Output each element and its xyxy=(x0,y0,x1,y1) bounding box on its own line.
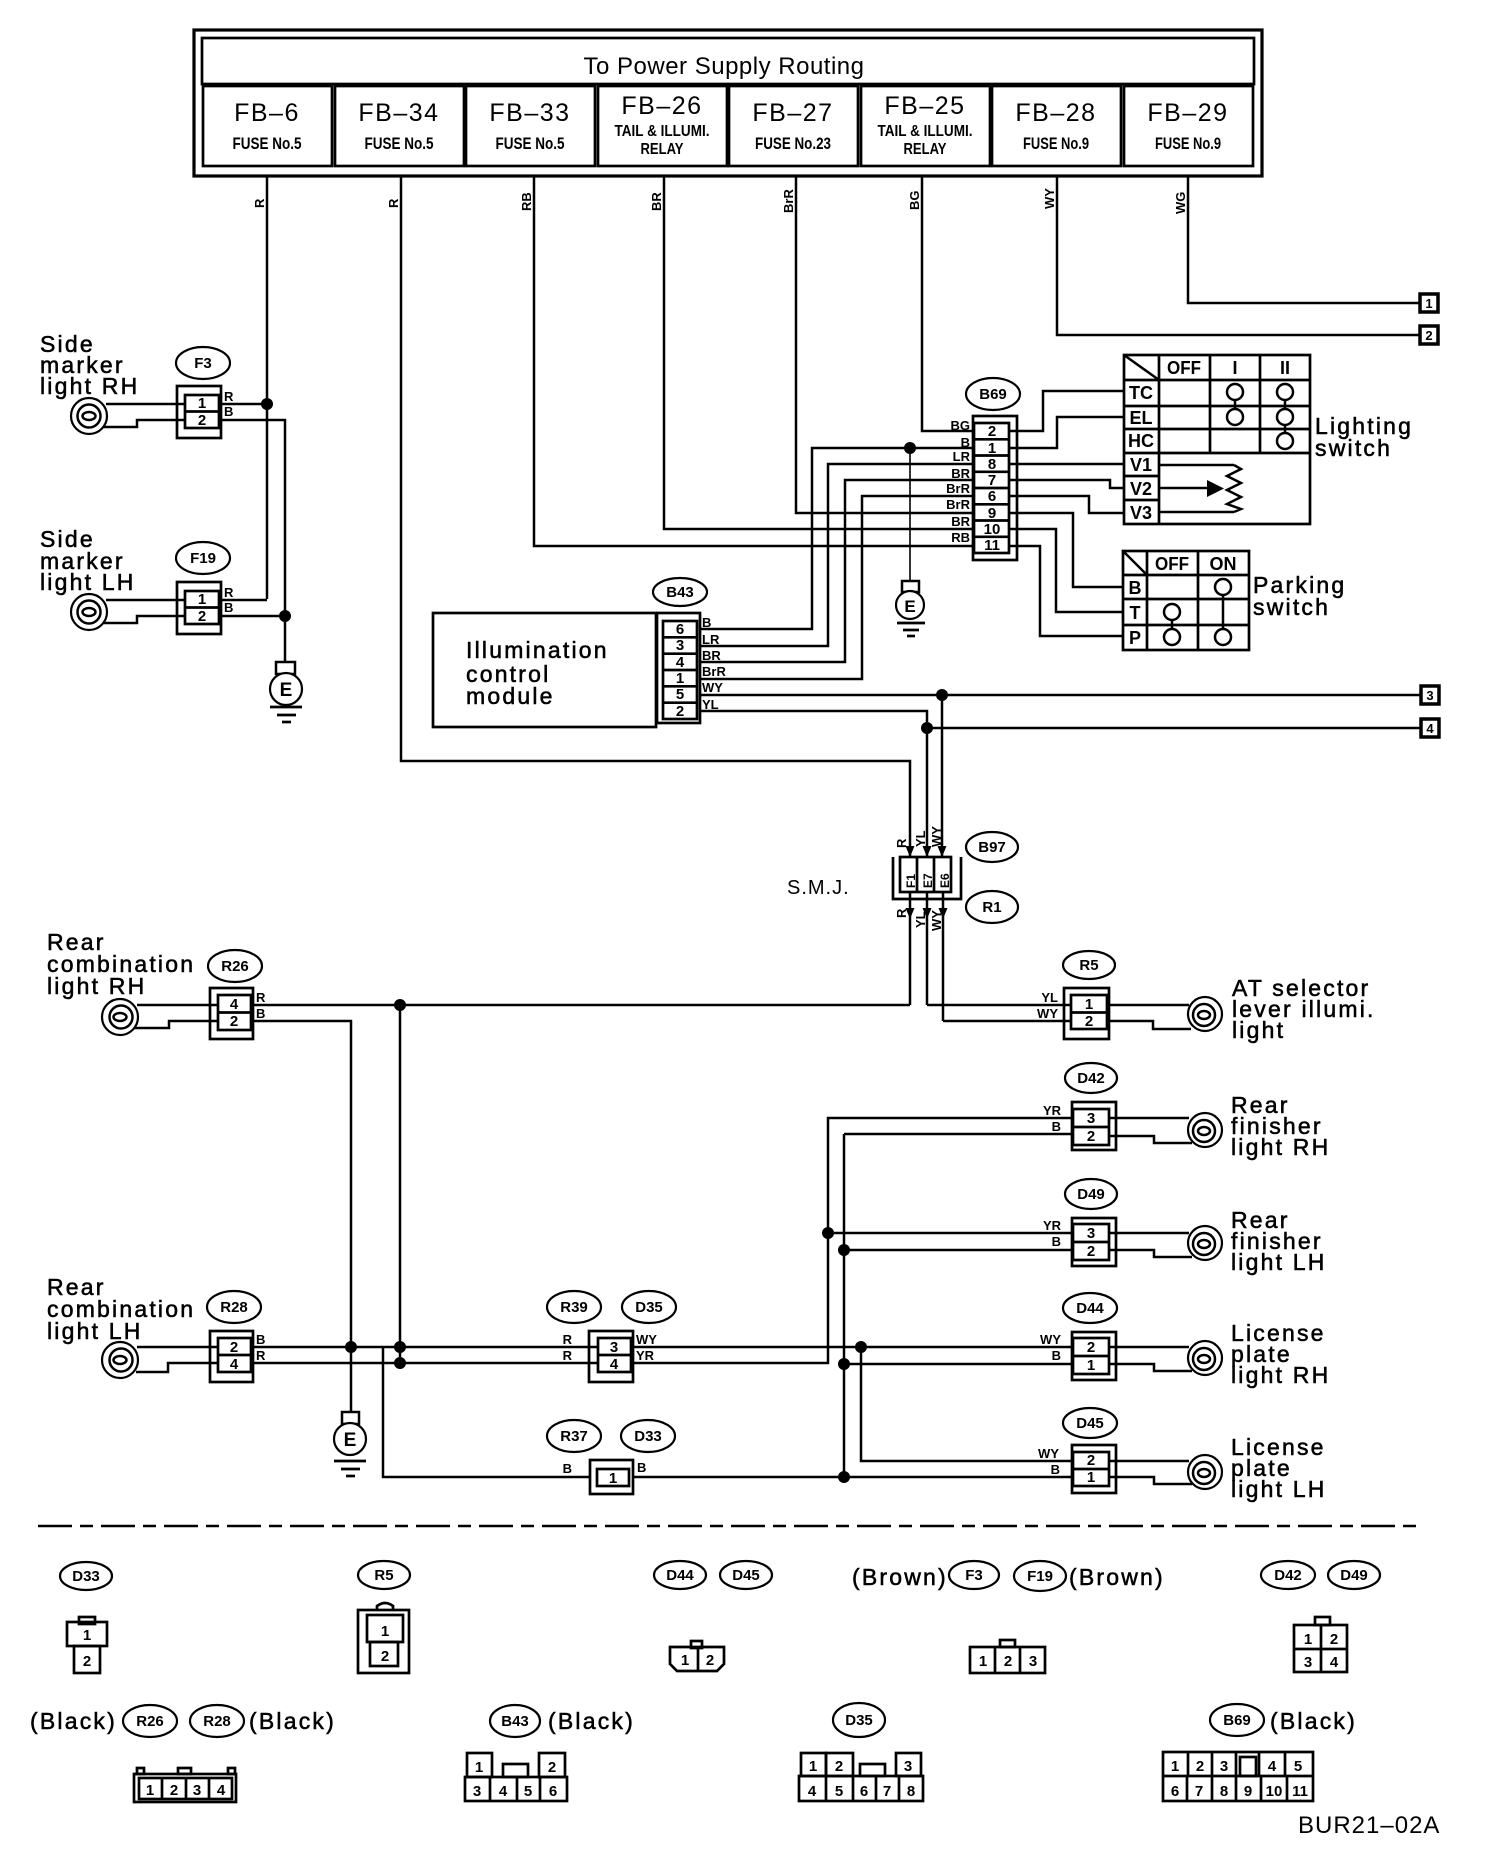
svg-text:R1: R1 xyxy=(982,899,1001,916)
wire bulb to F3 pin2 xyxy=(103,420,186,427)
terminal 4 xyxy=(1421,719,1439,737)
svg-text:RB: RB xyxy=(519,192,534,211)
svg-text:FUSE No.23: FUSE No.23 xyxy=(755,134,831,153)
svg-text:B69: B69 xyxy=(1223,1712,1251,1729)
svg-text:S.M.J.: S.M.J. xyxy=(787,877,850,899)
terminal 1 xyxy=(1420,294,1438,312)
svg-text:R28: R28 xyxy=(220,1299,248,1316)
relay cell FB-25 xyxy=(861,86,990,166)
svg-text:FB–29: FB–29 xyxy=(1147,99,1228,127)
svg-text:4: 4 xyxy=(610,1356,619,1373)
svg-text:3: 3 xyxy=(1029,1653,1037,1670)
svg-text:II: II xyxy=(1280,358,1290,378)
svg-text:FUSE No.5: FUSE No.5 xyxy=(233,134,302,153)
svg-text:To Power Supply Routing: To Power Supply Routing xyxy=(584,53,865,80)
svg-text:R: R xyxy=(256,990,266,1005)
svg-text:FUSE No.9: FUSE No.9 xyxy=(1155,134,1221,153)
svg-text:B: B xyxy=(1052,1119,1061,1134)
connector label R28 xyxy=(207,1291,261,1323)
svg-text:light LH: light LH xyxy=(40,569,136,595)
junction WY branch to D45 xyxy=(855,1341,867,1353)
svg-text:3: 3 xyxy=(904,1758,912,1775)
svg-text:2: 2 xyxy=(1087,1452,1095,1469)
svg-text:1: 1 xyxy=(681,1652,689,1669)
arrow R into SMJ xyxy=(906,846,915,857)
svg-text:FUSE No.5: FUSE No.5 xyxy=(496,134,565,153)
svg-text:RELAY: RELAY xyxy=(641,141,684,158)
legend connector label D49 xyxy=(1328,1561,1380,1589)
relay cell FB-26 xyxy=(598,86,727,166)
SMJ pin box xyxy=(900,857,952,892)
legend connector label D35 xyxy=(833,1703,885,1737)
bulb AT selector xyxy=(1188,997,1222,1031)
svg-text:BrR: BrR xyxy=(781,189,796,213)
wire WY branch down to D45 xyxy=(861,1347,1073,1461)
svg-text:R: R xyxy=(224,585,234,600)
svg-text:(Black): (Black) xyxy=(548,1708,635,1734)
svg-text:R: R xyxy=(224,389,234,404)
svg-text:E7: E7 xyxy=(921,873,935,888)
svg-text:8: 8 xyxy=(988,456,996,473)
svg-text:OFF: OFF xyxy=(1167,358,1201,378)
fuse cell FB-28 xyxy=(992,86,1121,166)
V1 internal wire xyxy=(1159,464,1234,467)
svg-text:FB–25: FB–25 xyxy=(884,92,965,120)
junction B drop to ground xyxy=(345,1341,357,1353)
svg-text:1: 1 xyxy=(979,1653,987,1670)
power supply routing box outer frame xyxy=(194,30,1262,176)
SMJ connector bracket xyxy=(893,857,961,899)
svg-text:Illumination: Illumination xyxy=(466,637,609,663)
svg-text:R26: R26 xyxy=(136,1713,164,1730)
wire B69 pin2 to lighting switch TC xyxy=(1009,391,1124,431)
wire bulb to F3 pin1 xyxy=(106,403,186,406)
wire bulb to R26 pin2 xyxy=(134,1021,217,1028)
svg-text:BR: BR xyxy=(951,514,970,529)
junction R drop on B row xyxy=(394,1341,406,1353)
bulb side marker LH xyxy=(71,594,107,630)
svg-text:FUSE No.9: FUSE No.9 xyxy=(1023,134,1089,153)
connector B69 xyxy=(973,416,1017,560)
junction YL to terminal 4 xyxy=(921,722,933,734)
svg-text:F19: F19 xyxy=(190,550,216,567)
bulb rear finisher LH xyxy=(1188,1226,1222,1260)
arrow WY below SMJ xyxy=(939,908,948,919)
wire B branch down to R37 row xyxy=(383,1347,590,1477)
svg-text:6: 6 xyxy=(549,1783,557,1800)
svg-text:light LH: light LH xyxy=(47,1318,143,1344)
wire WY from SMJ to R5 pin2 xyxy=(943,1020,1071,1023)
svg-text:1: 1 xyxy=(1425,296,1432,311)
svg-text:D45: D45 xyxy=(732,1567,760,1584)
wire B69 pin9 to parking switch B xyxy=(1009,513,1123,587)
connector label D35 xyxy=(622,1291,676,1323)
svg-text:YL: YL xyxy=(1041,990,1058,1005)
wire YL below SMJ xyxy=(926,892,929,1005)
svg-text:9: 9 xyxy=(1244,1783,1252,1800)
svg-text:B: B xyxy=(1052,1348,1061,1363)
svg-text:V3: V3 xyxy=(1130,503,1152,523)
svg-text:FB–6: FB–6 xyxy=(234,99,300,127)
fuse cell FB-6 xyxy=(203,86,332,166)
svg-text:4: 4 xyxy=(230,1356,239,1373)
wire bulb to R28 pin4 xyxy=(136,1363,217,1372)
legend connector label R28 xyxy=(190,1705,244,1737)
svg-text:1: 1 xyxy=(676,670,684,687)
legend connector label D42 xyxy=(1261,1561,1315,1589)
wire D42 pin2 to bulb xyxy=(1109,1136,1192,1143)
svg-text:3: 3 xyxy=(1304,1654,1312,1671)
svg-text:5: 5 xyxy=(1294,1758,1302,1775)
connector B43 pin block xyxy=(657,613,700,723)
svg-text:2: 2 xyxy=(706,1652,714,1669)
connector label R37 xyxy=(547,1420,601,1452)
junction B at D44 xyxy=(838,1358,850,1370)
svg-text:2: 2 xyxy=(676,703,684,720)
arrow YL below SMJ xyxy=(923,908,932,919)
svg-text:B: B xyxy=(256,1006,265,1021)
svg-text:B: B xyxy=(224,600,233,615)
svg-text:3: 3 xyxy=(676,637,684,654)
junction R drop xyxy=(394,999,406,1011)
wire D35 YR row to bus xyxy=(633,1118,1073,1363)
svg-text:R: R xyxy=(252,198,267,208)
legend connector R26/R28 face xyxy=(134,1768,236,1802)
variable resistor zigzag xyxy=(1227,465,1241,512)
wire R5 pin2 to bulb xyxy=(1107,1021,1191,1029)
connector label F3 xyxy=(176,347,230,379)
wire B69 pin6 to lighting switch V3 xyxy=(1009,496,1124,513)
wire bulb to F19 pin1 xyxy=(106,599,186,602)
svg-text:2: 2 xyxy=(1087,1243,1095,1260)
svg-text:R: R xyxy=(563,1332,573,1347)
svg-text:T: T xyxy=(1130,603,1141,623)
connector R26 xyxy=(210,988,253,1039)
wire B69 pin10 to parking switch T xyxy=(1009,529,1123,612)
svg-text:I: I xyxy=(1232,358,1237,378)
wire D49 pin3 to bulb xyxy=(1109,1232,1189,1235)
wire BG from FB-25 to B69 pin2 xyxy=(922,176,975,431)
svg-text:D42: D42 xyxy=(1274,1567,1302,1584)
junction F19 B xyxy=(279,610,291,622)
wire B bus to D42 xyxy=(844,1133,1073,1136)
svg-text:R28: R28 xyxy=(203,1713,231,1730)
svg-text:F19: F19 xyxy=(1027,1568,1053,1585)
junction B at R37 row xyxy=(838,1471,850,1483)
svg-text:F1: F1 xyxy=(904,874,918,888)
wire B43 pin3 LR to B69 pin8 xyxy=(700,464,975,646)
svg-text:YL: YL xyxy=(913,830,928,847)
wire F3 B right then down xyxy=(221,420,285,614)
wire BrR from FB-27 to B69 pin9 xyxy=(796,176,975,513)
wire B43 pin6 B to B69 pin1 xyxy=(700,448,975,629)
arrow R below SMJ xyxy=(906,908,915,919)
svg-text:R: R xyxy=(386,198,401,208)
legend connector label B69 xyxy=(1210,1704,1264,1736)
wire WG from FB-29 to terminal 1 xyxy=(1188,176,1420,303)
svg-text:V1: V1 xyxy=(1130,455,1152,475)
legend connector label D44 xyxy=(654,1561,706,1589)
svg-text:7: 7 xyxy=(883,1783,891,1800)
connector label R1 xyxy=(966,891,1018,923)
svg-text:YR: YR xyxy=(1043,1103,1062,1118)
svg-text:7: 7 xyxy=(988,472,996,489)
fuse cell FB-29 xyxy=(1124,86,1253,166)
wire R26 B right then down xyxy=(253,1021,351,1347)
svg-text:D49: D49 xyxy=(1340,1567,1368,1584)
wire B junction down to ground xyxy=(909,448,911,581)
wire B branch to D49 xyxy=(844,1249,1073,1252)
legend connector B43 face xyxy=(465,1753,567,1801)
connector R5 xyxy=(1064,988,1109,1039)
connector label R39 xyxy=(547,1291,601,1323)
svg-text:1: 1 xyxy=(1087,1357,1095,1374)
svg-text:2: 2 xyxy=(381,1648,389,1665)
svg-text:6: 6 xyxy=(988,488,996,505)
svg-text:BUR21–02A: BUR21–02A xyxy=(1298,1812,1440,1839)
svg-text:1: 1 xyxy=(1087,1469,1095,1486)
svg-text:(Brown): (Brown) xyxy=(1069,1564,1165,1590)
svg-text:5: 5 xyxy=(676,686,684,703)
svg-text:B: B xyxy=(563,1461,572,1476)
svg-text:11: 11 xyxy=(984,537,1000,554)
svg-text:4: 4 xyxy=(217,1782,226,1799)
connector label R5 xyxy=(1063,951,1115,979)
legend connector label D45 xyxy=(720,1561,772,1589)
svg-text:8: 8 xyxy=(1220,1783,1228,1800)
svg-text:OFF: OFF xyxy=(1155,554,1189,574)
svg-text:4: 4 xyxy=(676,654,685,671)
svg-text:2: 2 xyxy=(1196,1758,1204,1775)
svg-text:light RH: light RH xyxy=(47,973,146,999)
svg-text:1: 1 xyxy=(198,395,206,412)
svg-text:EL: EL xyxy=(1129,408,1152,428)
svg-text:8: 8 xyxy=(907,1783,915,1800)
connector R37/D33 xyxy=(590,1460,633,1494)
wire D45 pin2 to bulb xyxy=(1109,1460,1189,1463)
svg-text:D33: D33 xyxy=(72,1568,100,1585)
svg-text:P: P xyxy=(1129,628,1141,648)
svg-text:2: 2 xyxy=(1085,1013,1093,1030)
wire B69 pin7 to lighting switch V2 xyxy=(1009,480,1124,488)
wire B bus vertical xyxy=(843,1134,846,1477)
svg-text:10: 10 xyxy=(1266,1783,1283,1800)
legend connector label D33 xyxy=(60,1562,112,1590)
svg-text:6: 6 xyxy=(676,621,684,638)
junction B to ground xyxy=(904,442,916,454)
legend connector B69 face xyxy=(1163,1752,1313,1801)
svg-text:switch: switch xyxy=(1253,594,1330,620)
connector label F19 xyxy=(176,542,230,574)
svg-text:2: 2 xyxy=(548,1759,556,1776)
power supply routing title cell xyxy=(202,38,1254,84)
parking switch table xyxy=(1123,551,1249,650)
svg-text:2: 2 xyxy=(230,1339,238,1356)
svg-text:5: 5 xyxy=(524,1783,532,1800)
svg-text:B: B xyxy=(961,435,970,450)
connector F3 xyxy=(177,386,221,438)
dashed separator line xyxy=(38,1525,1420,1528)
svg-text:E6: E6 xyxy=(938,873,952,888)
svg-text:BrR: BrR xyxy=(946,497,970,512)
wire bulb to F19 pin2 xyxy=(103,616,186,623)
wire YL from SMJ to R5 pin1 xyxy=(927,1004,1071,1007)
svg-text:TC: TC xyxy=(1129,383,1153,403)
svg-text:R37: R37 xyxy=(560,1428,588,1445)
wire R37 B row to D45 xyxy=(590,1476,1073,1479)
wire WY from FB-28 to terminal 2 xyxy=(1057,176,1420,335)
svg-text:WY: WY xyxy=(636,1332,657,1347)
illumination control module box xyxy=(433,613,656,727)
svg-text:9: 9 xyxy=(988,505,996,522)
svg-text:2: 2 xyxy=(835,1758,843,1775)
bulb side marker RH xyxy=(71,398,107,434)
wire RB from FB-33 to B69 pin11 xyxy=(534,176,975,546)
legend connector label F3 xyxy=(949,1561,999,1589)
wire WY below SMJ xyxy=(942,892,945,1021)
svg-text:2: 2 xyxy=(1087,1128,1095,1145)
wire down to ground E xyxy=(284,616,287,662)
svg-text:V2: V2 xyxy=(1130,479,1152,499)
svg-text:2: 2 xyxy=(1087,1339,1095,1356)
legend connector label R26 xyxy=(123,1705,177,1737)
svg-text:1: 1 xyxy=(381,1623,389,1640)
wire B branch to D44 xyxy=(844,1363,1073,1366)
svg-text:TAIL & ILLUMI.: TAIL & ILLUMI. xyxy=(615,123,710,140)
svg-text:FB–28: FB–28 xyxy=(1015,99,1096,127)
svg-text:FB–26: FB–26 xyxy=(621,92,702,120)
svg-text:1: 1 xyxy=(1085,996,1093,1013)
wire B43 pin5 WY to terminal 3 xyxy=(700,694,1421,697)
wire R below SMJ xyxy=(909,892,912,1005)
svg-text:light: light xyxy=(1232,1017,1285,1043)
bulb license plate LH xyxy=(1188,1455,1222,1489)
svg-text:switch: switch xyxy=(1315,435,1392,461)
svg-text:FB–34: FB–34 xyxy=(358,99,439,127)
ground E rear combination xyxy=(334,1412,366,1476)
svg-text:B: B xyxy=(637,1460,646,1475)
wire B43 pin4 BR to B69 pin7 xyxy=(700,480,975,662)
terminal 2 xyxy=(1420,326,1438,344)
svg-text:FB–33: FB–33 xyxy=(489,99,570,127)
svg-text:(Black): (Black) xyxy=(30,1708,117,1734)
svg-text:2: 2 xyxy=(198,608,206,625)
svg-text:3: 3 xyxy=(1087,1110,1095,1127)
svg-text:F3: F3 xyxy=(965,1567,983,1584)
svg-text:6: 6 xyxy=(1171,1783,1179,1800)
svg-text:HC: HC xyxy=(1128,431,1154,451)
svg-text:2: 2 xyxy=(1330,1631,1338,1648)
svg-text:BrR: BrR xyxy=(702,664,726,679)
connector label R26 xyxy=(208,950,262,982)
svg-text:4: 4 xyxy=(1330,1654,1339,1671)
wire R28 B row to R39 xyxy=(253,1346,598,1349)
legend connector D33 face xyxy=(67,1617,107,1673)
svg-text:4: 4 xyxy=(499,1783,508,1800)
svg-text:B: B xyxy=(256,1332,265,1347)
wire D44 pin1 to bulb xyxy=(1109,1364,1192,1371)
wire BR from FB-26 to B69 pin10 xyxy=(664,176,975,529)
legend connector D35 face xyxy=(799,1753,923,1801)
switch contact circles column I xyxy=(1227,384,1243,400)
wire B43 pin2 YL right then down xyxy=(700,711,927,857)
svg-text:4: 4 xyxy=(808,1783,817,1800)
svg-text:3: 3 xyxy=(610,1339,618,1356)
connector label B43 xyxy=(653,578,707,606)
wire R drop down to R28 row xyxy=(399,1005,402,1363)
svg-text:2: 2 xyxy=(1004,1653,1012,1670)
svg-text:1: 1 xyxy=(609,1470,617,1487)
legend connector D42/D49 face xyxy=(1294,1617,1347,1672)
legend connector label F19 xyxy=(1014,1561,1066,1591)
wire F19 B to junction xyxy=(221,615,285,618)
svg-text:WY: WY xyxy=(1040,1332,1061,1347)
arrow YL into SMJ xyxy=(923,846,932,857)
wire WY down to SMJ xyxy=(941,695,944,857)
lighting switch table xyxy=(1124,355,1310,524)
svg-text:D42: D42 xyxy=(1077,1070,1105,1087)
bulb rear finisher RH xyxy=(1188,1113,1222,1147)
legend connector label R5 xyxy=(358,1561,410,1589)
V2 internal wire with arrow xyxy=(1159,487,1209,490)
svg-text:BG: BG xyxy=(907,191,922,211)
wire R5 pin1 to bulb xyxy=(1107,1004,1189,1007)
svg-text:4: 4 xyxy=(230,996,239,1013)
svg-text:light RH: light RH xyxy=(1231,1134,1330,1160)
svg-text:2: 2 xyxy=(83,1653,91,1670)
wire B69 pin11 to parking switch P xyxy=(1009,546,1123,636)
svg-text:D35: D35 xyxy=(845,1712,873,1729)
legend connector D44/D45 face xyxy=(670,1641,724,1671)
connector label B97 xyxy=(966,832,1018,862)
svg-text:D44: D44 xyxy=(666,1567,694,1584)
switch contact circles column II xyxy=(1277,384,1293,400)
junction YR at D49 xyxy=(822,1227,834,1239)
ground E at B69 xyxy=(896,581,925,636)
connector D49 xyxy=(1072,1218,1116,1266)
svg-text:E: E xyxy=(344,1430,357,1451)
junction F3 R xyxy=(261,398,273,410)
svg-text:D35: D35 xyxy=(635,1299,663,1316)
svg-text:R: R xyxy=(894,908,909,918)
wire bulb to R28 pin2 xyxy=(137,1346,217,1349)
wire B43 pin1 BrR to B69 pin6 xyxy=(700,496,975,679)
svg-text:(Black): (Black) xyxy=(1270,1708,1357,1734)
svg-text:11: 11 xyxy=(1292,1783,1308,1800)
svg-text:light RH: light RH xyxy=(1231,1362,1330,1388)
svg-text:FB–27: FB–27 xyxy=(752,99,833,127)
svg-text:BrR: BrR xyxy=(946,481,970,496)
svg-text:YR: YR xyxy=(1043,1218,1062,1233)
svg-text:(Black): (Black) xyxy=(249,1708,336,1734)
legend connector F3/F19 face xyxy=(970,1640,1045,1673)
svg-text:4: 4 xyxy=(1426,721,1434,736)
svg-text:B: B xyxy=(224,404,233,419)
svg-text:WY: WY xyxy=(1037,1006,1058,1021)
connector label B69 xyxy=(966,378,1020,410)
svg-text:2: 2 xyxy=(988,423,996,440)
svg-text:2: 2 xyxy=(170,1782,178,1799)
svg-text:R26: R26 xyxy=(221,958,249,975)
svg-text:YR: YR xyxy=(636,1348,655,1363)
V3 internal wire xyxy=(1159,511,1234,514)
svg-text:B97: B97 xyxy=(978,839,1006,856)
wire F3 R to junction xyxy=(221,403,267,406)
svg-text:1: 1 xyxy=(1304,1631,1312,1648)
svg-text:E: E xyxy=(904,597,915,616)
svg-text:TAIL & ILLUMI.: TAIL & ILLUMI. xyxy=(878,123,973,140)
svg-text:B69: B69 xyxy=(979,386,1007,403)
